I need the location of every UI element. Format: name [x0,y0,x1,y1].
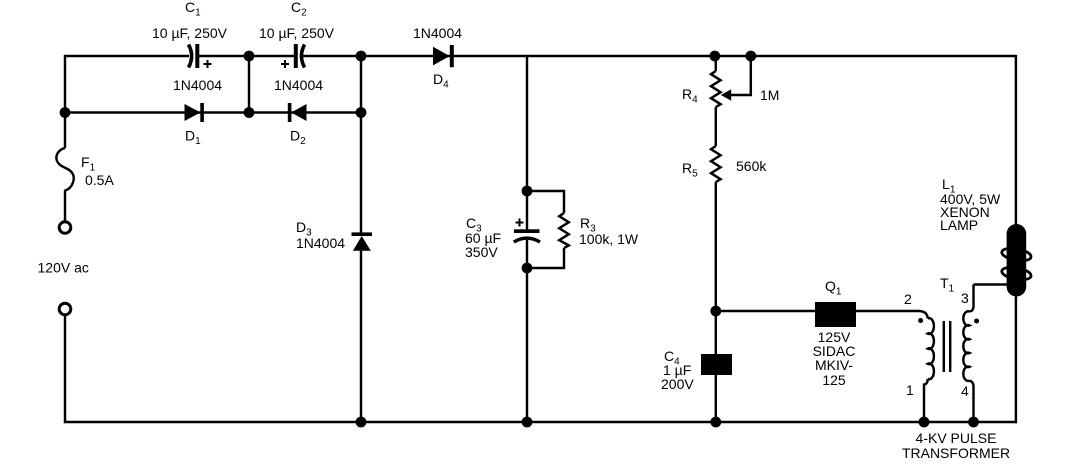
wire top rail right segment [303,55,1016,57]
svg-text:10 µF, 250V: 10 µF, 250V [259,25,335,41]
svg-text:1N4004: 1N4004 [173,77,222,93]
svg-text:4-KV PULSE: 4-KV PULSE [916,430,997,446]
svg-text:200V: 200V [661,376,694,392]
wire top rail between C1 and C2 [199,55,294,57]
svg-text:LAMP: LAMP [940,217,978,233]
node row2 mid [244,107,255,118]
svg-text:1N4004: 1N4004 [413,25,462,41]
svg-text:0.5A: 0.5A [85,172,114,188]
node bottom C4 [710,417,721,428]
wire between R4 and R5 [715,107,717,146]
R4 wiper arrow [730,56,751,95]
core [943,321,945,372]
wire vertical between node A and row2 [248,56,250,113]
sidac Q1 [813,278,856,388]
transformer T1 [902,275,1010,461]
diode D3 [296,219,372,251]
svg-text:100k, 1W: 100k, 1W [579,231,639,247]
capacitor C2 [259,0,335,68]
resistor R4 potentiometer [711,71,721,107]
diode D4 [413,25,462,91]
node bottom C3 [522,417,533,428]
capacitor C3 [465,215,540,260]
wire top rail left segment [65,55,189,57]
svg-text:560k: 560k [736,158,767,174]
node row2 right [356,107,367,118]
capacitor C1 [152,0,228,68]
wire R4 top lead [715,56,717,71]
svg-text:10 µF, 250V: 10 µF, 250V [152,25,228,41]
xenon lamp L1 [940,176,1032,297]
wire vertical x361 D3 to bottom [360,250,362,422]
primary winding [928,318,934,379]
svg-text:1: 1 [906,382,914,398]
capacitor C4 [661,311,732,422]
svg-text:120V ac: 120V ac [38,260,89,276]
node Q1 left [710,306,721,317]
wire C3 branch upper [526,56,528,230]
resistor R5 [711,146,721,182]
secondary winding [970,285,974,312]
wire node to Q1 [716,310,815,312]
svg-text:4: 4 [961,383,969,399]
wire R5 to node [715,182,717,311]
wire left vertical upper [64,55,66,148]
svg-text:1N4004: 1N4004 [296,235,345,251]
wire R3 bottom [527,248,564,268]
node bottom D3 [356,417,367,428]
svg-text:TRANSFORMER: TRANSFORMER [902,445,1010,461]
resistor R3 [559,213,569,248]
secondary phase dot [974,319,979,324]
svg-text:3: 3 [961,290,969,306]
node C3 top [522,186,533,197]
wire left vertical lower [64,315,66,423]
svg-text:1N4004: 1N4004 [274,77,323,93]
primary phase dot [918,318,923,323]
wire vertical x361 top to D3 [360,56,362,234]
wire right vertical lower [1015,294,1017,423]
wire bottom rail [64,421,1017,423]
node row2 left [60,107,71,118]
terminal lower [59,303,71,315]
svg-text:125: 125 [822,372,846,388]
svg-text:MKIV-: MKIV- [815,357,853,373]
node top C2-right [356,51,367,62]
wire R3 top [527,191,564,213]
node bottom pin4 [968,417,979,428]
svg-text:1M: 1M [760,87,779,103]
node top wiper [745,51,756,62]
wire row2 [65,111,361,113]
terminal upper (fuse side) [59,222,71,234]
node top R4 [709,51,720,62]
wire C3 branch lower [526,240,528,422]
diode D2 [274,77,323,147]
fuse F1 [56,148,73,191]
node bottom pin1 [919,417,930,428]
wire right vertical upper [1015,55,1017,228]
node top C1-C2 [244,51,255,62]
svg-text:350V: 350V [465,244,498,260]
svg-text:2: 2 [904,291,912,307]
wire trigger (pin3 to lamp) [974,283,1009,285]
wire Q1 to transformer pin 2 [856,311,928,319]
diode D1 [173,77,222,147]
node C3 bottom [522,263,533,274]
